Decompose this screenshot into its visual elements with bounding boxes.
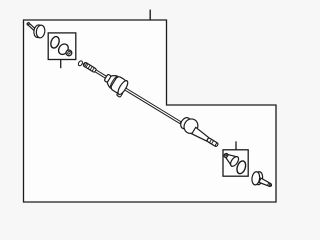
clamp ring inside B2	[235, 160, 247, 175]
P2 head rim	[254, 171, 263, 185]
long axle shaft	[125, 88, 181, 124]
top tick mark	[149, 10, 151, 20]
snap ring near inner stub	[78, 60, 84, 66]
inner splined stub	[83, 62, 97, 73]
callout box B1	[48, 33, 76, 60]
boot inside B2	[221, 150, 240, 168]
P1 head rim	[33, 24, 43, 38]
P2 shaft	[259, 178, 272, 188]
housing rim	[116, 79, 129, 96]
axle assembly (rotated group along shaft axis)	[79, 55, 223, 153]
inner boot cone	[106, 73, 118, 88]
inner joint housing body	[110, 76, 127, 95]
splined shaft tip cap	[215, 143, 219, 147]
outer boot body	[179, 116, 192, 131]
P1 shaft	[27, 22, 37, 31]
P1 head face	[36, 25, 46, 39]
outer splined shaft	[207, 138, 219, 147]
leader line above box B2	[235, 141, 237, 149]
thin shaft segment A	[95, 70, 107, 78]
pin P2 (bottom-right stub pin)	[251, 171, 272, 187]
pin P1 (top-left stub pin)	[27, 22, 46, 38]
neck taper	[192, 127, 210, 142]
boot inside B1	[57, 42, 72, 56]
inner boot big-end edge	[109, 75, 119, 89]
inner boot clamp band	[104, 74, 111, 83]
P2 head face	[251, 171, 260, 185]
clamp ring inside B1	[49, 35, 60, 49]
leader line under box B1	[60, 60, 62, 69]
outer spline ticks	[210, 139, 214, 143]
callout box B2	[223, 150, 248, 176]
stub spline ticks	[86, 64, 94, 71]
stub tip cap	[83, 62, 87, 66]
outer joint housing	[181, 116, 200, 136]
housing tab	[116, 90, 123, 97]
panel border (stepped outline)	[24, 20, 277, 202]
